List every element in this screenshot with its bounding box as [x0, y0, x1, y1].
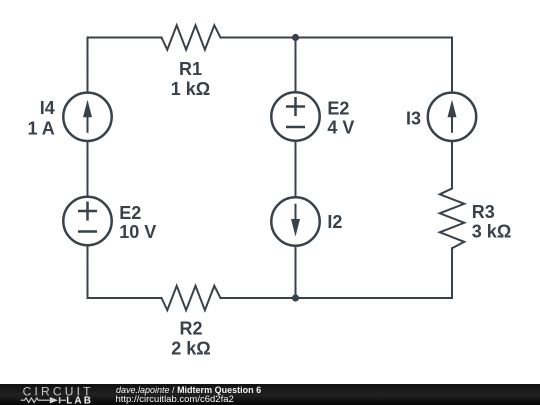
node top [292, 34, 299, 41]
label R2 [171, 319, 210, 359]
voltage source E2 10V [63, 197, 111, 245]
svg-text:1 A: 1 A [27, 118, 54, 138]
resistor R1 [162, 25, 221, 50]
resistor R3 [440, 189, 465, 249]
wire left lower [87, 245, 89, 298]
svg-text:E2: E2 [327, 99, 349, 119]
svg-text:LAB: LAB [66, 396, 93, 405]
label R1 [171, 59, 210, 99]
footer text line 2 [116, 395, 234, 404]
wire middle lower [295, 246, 297, 298]
label E2 10V [119, 203, 156, 242]
current source I3 [428, 93, 476, 141]
svg-text:I2: I2 [327, 212, 342, 232]
wire top-right segment [221, 37, 453, 39]
footer bar [0, 384, 540, 405]
svg-text:1 kΩ: 1 kΩ [171, 79, 210, 99]
CircuitLab logo [0, 384, 135, 405]
svg-text:R3: R3 [472, 202, 495, 222]
voltage source E2 4V [271, 92, 319, 140]
label I3 [406, 108, 421, 128]
svg-text:R2: R2 [179, 319, 202, 339]
label I2 [327, 212, 342, 232]
wire middle center [295, 141, 297, 198]
svg-text:3 kΩ: 3 kΩ [472, 222, 511, 242]
label I4 [27, 98, 54, 138]
wire right upper [451, 38, 453, 93]
svg-text:10 V: 10 V [119, 222, 156, 242]
wire bottom-right segment [221, 297, 453, 299]
label E2 4V [327, 99, 354, 138]
svg-text:R1: R1 [179, 59, 202, 79]
wire right lower [451, 248, 453, 298]
svg-text:I3: I3 [406, 108, 421, 128]
svg-text:4 V: 4 V [327, 118, 354, 138]
wire left middle [87, 141, 89, 197]
wire left side upper [87, 38, 89, 93]
svg-text:2 kΩ: 2 kΩ [171, 339, 210, 359]
wire bottom-left segment [88, 297, 162, 299]
wire middle upper [295, 38, 297, 93]
current source I2 [271, 197, 319, 245]
footer text line 1 [116, 386, 261, 395]
svg-text:I4: I4 [40, 98, 55, 118]
svg-text:E2: E2 [119, 203, 141, 223]
resistor R2 [162, 286, 221, 311]
node bottom [292, 294, 299, 301]
wire top-left segment [88, 37, 162, 39]
label R3 [472, 202, 511, 241]
wire right middle [451, 141, 453, 188]
current source I4 [63, 93, 111, 141]
